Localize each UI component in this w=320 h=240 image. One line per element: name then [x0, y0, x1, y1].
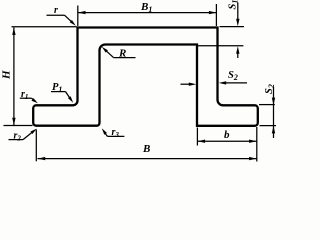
svg-text:r: r — [54, 5, 58, 16]
svg-text:B: B — [142, 143, 150, 155]
svg-text:R: R — [118, 48, 126, 60]
svg-text:H: H — [1, 70, 13, 80]
svg-text:b: b — [224, 129, 230, 141]
